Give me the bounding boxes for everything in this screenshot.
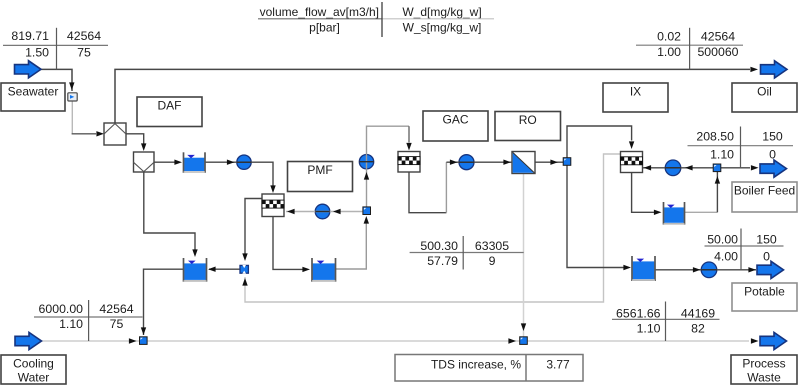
svg-text:42564: 42564 <box>67 29 101 43</box>
svg-text:3.77: 3.77 <box>546 358 570 372</box>
svg-text:819.71: 819.71 <box>11 29 49 43</box>
node cooling water junction <box>140 337 148 345</box>
svg-text:p[bar]: p[bar] <box>309 20 340 34</box>
svg-text:500.30: 500.30 <box>420 239 458 253</box>
svg-text:150: 150 <box>762 130 783 144</box>
pump P1 (tank T1 to PMF) <box>237 155 251 169</box>
svg-text:9: 9 <box>489 254 496 268</box>
flow arrow Seawater inlet <box>15 61 42 78</box>
RO membrane module <box>512 152 535 174</box>
label Process Waste <box>731 355 797 384</box>
DAF mixer M1 <box>104 123 126 145</box>
label Boiler Feed <box>732 182 797 212</box>
label PMF <box>288 162 353 192</box>
flow arrow Cooling Water inlet <box>15 332 42 349</box>
node boiler feed <box>713 164 721 172</box>
TDS result box <box>395 355 583 382</box>
wire: PMF left outlet down to waste valve <box>245 199 262 258</box>
svg-text:0.02: 0.02 <box>657 30 681 44</box>
wire: node to boiler-feed outlet <box>721 167 751 169</box>
wire: tank T1 through pump P1 into PMF top <box>205 162 273 187</box>
svg-text:W_d[mg/kg_w]: W_d[mg/kg_w] <box>402 5 481 19</box>
flow arrow Process Waste outlet <box>760 332 787 349</box>
wire: splitter bottom sludge to tank TA top <box>144 172 195 251</box>
filter PMF <box>262 194 284 217</box>
values Seawater stream <box>3 44 108 46</box>
svg-text:500060: 500060 <box>697 45 738 59</box>
filter IX <box>621 152 643 173</box>
svg-text:4.00: 4.00 <box>714 249 738 263</box>
arrowheads on wires <box>750 67 758 72</box>
label Cooling Water <box>1 355 66 384</box>
pump P5 (IX loop) <box>665 160 681 176</box>
svg-text:1.00: 1.00 <box>657 45 681 59</box>
label RO <box>495 112 561 141</box>
values Boiler Feed stream <box>688 145 794 147</box>
node RO permeate splitter <box>563 158 571 166</box>
splitter M2 <box>134 152 155 172</box>
wire: splitter to tank T1 <box>154 161 175 163</box>
wire: tank TD through pump P6 to potable outlet <box>655 269 756 271</box>
label IX <box>603 83 668 112</box>
tank TC (IX loop) <box>664 207 684 222</box>
svg-text:1.50: 1.50 <box>25 46 49 60</box>
wire: measuring point to DAF mixer left <box>71 101 73 134</box>
svg-text:TDS increase, %: TDS increase, % <box>431 358 521 372</box>
svg-text:1.10: 1.10 <box>710 148 734 162</box>
wire: DAF mixer top up and over to Oil outlet <box>115 69 750 123</box>
svg-text:150: 150 <box>756 232 777 246</box>
svg-text:volume_flow_av[m3/h]: volume_flow_av[m3/h] <box>260 5 379 19</box>
wire: node down to tank TD <box>567 165 624 268</box>
svg-text:PMF: PMF <box>307 163 332 177</box>
svg-text:0: 0 <box>769 148 776 162</box>
svg-text:6561.66: 6561.66 <box>616 306 661 320</box>
measuring point icon <box>68 93 77 101</box>
pump P2 (PMF backwash) <box>315 204 330 219</box>
wire: valve to tank TA <box>209 268 240 270</box>
svg-text:57.79: 57.79 <box>427 254 458 268</box>
wire: IX bottom outlet to tank TC <box>632 173 655 213</box>
pump P4 (GAC to RO) <box>459 155 474 170</box>
svg-text:Waste: Waste <box>747 371 781 385</box>
svg-text:DAF: DAF <box>158 99 182 113</box>
svg-text:Potable: Potable <box>744 285 785 299</box>
filter GAC <box>398 152 420 173</box>
svg-text:Cooling: Cooling <box>13 357 54 371</box>
wire: tank TA outlet down to cooling-water node <box>144 269 184 335</box>
values Potable stream <box>705 245 784 247</box>
flow arrow Boiler Feed outlet <box>760 160 787 177</box>
label Potable <box>732 283 797 311</box>
svg-text:1.10: 1.10 <box>637 321 661 335</box>
flow arrow Potable outlet <box>757 261 784 278</box>
svg-text:GAC: GAC <box>442 113 468 127</box>
flow arrow Oil outlet <box>761 61 788 78</box>
wire: tank TB up to splitter node <box>336 223 367 269</box>
pump impeller lines <box>237 161 251 163</box>
node waste junction <box>520 337 528 345</box>
tank T1 (DAF clearwell) <box>184 158 204 171</box>
svg-text:Seawater: Seawater <box>8 85 59 99</box>
wire: cooling water / process waste bottom header <box>41 340 749 342</box>
values Cooling Water stream <box>34 316 143 318</box>
svg-text:Water: Water <box>18 371 50 385</box>
svg-text:75: 75 <box>77 46 91 60</box>
wire: node through pump P5 into IX right <box>643 167 714 169</box>
wire: RO concentrate down to waste node <box>523 174 525 337</box>
tank TD (permeate) <box>633 261 655 279</box>
wire: IX backwash line to valve bottom <box>245 154 621 302</box>
tank TA (backwash waste) <box>184 263 206 280</box>
values Process Waste stream <box>612 318 720 320</box>
wire: seawater inlet down to measuring point <box>40 69 72 91</box>
wire: node to pump P2 into PMF right (backwash) <box>286 211 363 213</box>
label Oil <box>732 83 797 112</box>
wire: tank TC up to boiler-feed node <box>685 211 718 213</box>
svg-text:63305: 63305 <box>475 239 509 253</box>
svg-text:0: 0 <box>763 249 770 263</box>
svg-text:6000.00: 6000.00 <box>39 302 84 316</box>
svg-text:75: 75 <box>110 317 124 331</box>
label DAF <box>137 97 202 127</box>
label GAC <box>423 111 488 141</box>
tank TB (PMF filtrate) <box>313 263 335 280</box>
wire: node up through pump P3 over to GAC top <box>367 126 410 207</box>
wire: RO permeate to node <box>535 161 564 163</box>
svg-text:W_s[mg/kg_w]: W_s[mg/kg_w] <box>403 20 482 34</box>
wire: GAC bottom outlet up through pump P4 to RO <box>409 172 446 213</box>
svg-text:1.10: 1.10 <box>59 317 83 331</box>
svg-text:Process: Process <box>742 357 785 371</box>
svg-text:44169: 44169 <box>681 306 715 320</box>
wire: node up and over into IX top <box>567 126 632 158</box>
values RO concentrate stream <box>410 252 524 254</box>
svg-text:42564: 42564 <box>701 30 735 44</box>
svg-text:50.00: 50.00 <box>707 232 738 246</box>
pump P6 (potable) <box>701 262 717 278</box>
svg-text:RO: RO <box>519 113 537 127</box>
wire: PMF bottom outlet to tank TB <box>273 217 303 270</box>
svg-text:208.50: 208.50 <box>696 130 734 144</box>
svg-text:Boiler Feed: Boiler Feed <box>734 184 795 198</box>
svg-text:42564: 42564 <box>99 302 133 316</box>
svg-text:82: 82 <box>691 321 705 335</box>
values Oil stream <box>636 44 743 46</box>
label Seawater <box>1 83 65 111</box>
backwash mixing valve <box>240 265 248 273</box>
svg-text:IX: IX <box>630 85 641 99</box>
wire: DAF mixer to splitter <box>126 134 144 146</box>
pump P3 (to GAC) <box>359 155 373 169</box>
svg-text:Oil: Oil <box>757 85 772 99</box>
node splitter (GAC feed / backwash) <box>363 207 371 215</box>
